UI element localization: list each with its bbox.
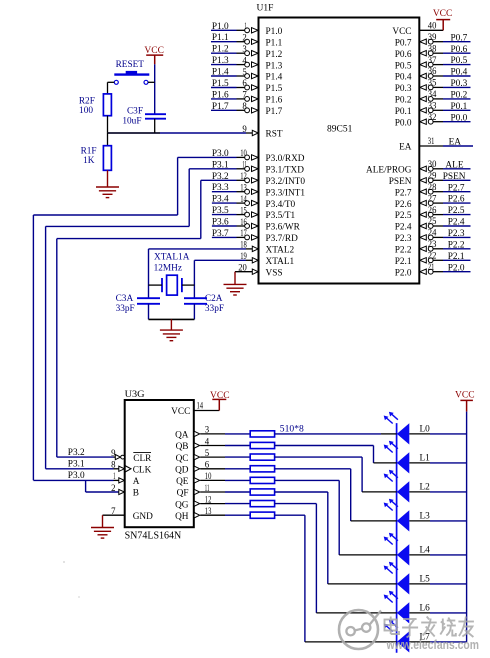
svg-text:P0.3: P0.3 xyxy=(395,84,412,94)
svg-text:27: 27 xyxy=(428,194,437,204)
svg-text:32: 32 xyxy=(428,113,437,123)
svg-text:10: 10 xyxy=(205,472,212,482)
svg-text:L1: L1 xyxy=(420,454,431,464)
svg-text:100: 100 xyxy=(79,106,93,116)
svg-text:31: 31 xyxy=(428,137,435,147)
svg-text:VCC: VCC xyxy=(433,9,453,19)
svg-text:A: A xyxy=(133,477,140,487)
svg-text:P3.5/T1: P3.5/T1 xyxy=(266,211,296,221)
svg-text:P2.0: P2.0 xyxy=(448,263,465,273)
svg-text:PSEN: PSEN xyxy=(443,172,466,182)
svg-text:3: 3 xyxy=(205,426,210,436)
svg-text:12: 12 xyxy=(240,172,247,182)
svg-text:1K: 1K xyxy=(83,156,95,166)
svg-text:RST: RST xyxy=(266,130,283,140)
svg-text:P0.4: P0.4 xyxy=(395,73,412,83)
svg-text:CLR: CLR xyxy=(133,454,152,464)
svg-text:P1.0: P1.0 xyxy=(212,22,229,32)
svg-text:C3F: C3F xyxy=(127,107,143,117)
svg-text:P0.2: P0.2 xyxy=(395,96,412,106)
svg-text:P0.6: P0.6 xyxy=(395,50,412,60)
svg-text:11: 11 xyxy=(242,161,247,171)
svg-text:PSEN: PSEN xyxy=(389,177,412,187)
svg-text:P3.2: P3.2 xyxy=(68,448,85,458)
svg-text:QE: QE xyxy=(176,477,189,487)
svg-text:P1.3: P1.3 xyxy=(266,61,283,71)
svg-text:3: 3 xyxy=(242,45,247,55)
svg-text:38: 38 xyxy=(428,44,437,54)
svg-text:P0.0: P0.0 xyxy=(395,118,412,128)
svg-text:510*8: 510*8 xyxy=(280,424,304,434)
svg-text:33: 33 xyxy=(428,102,437,112)
svg-text:EA: EA xyxy=(399,143,412,153)
svg-text:P1.1: P1.1 xyxy=(266,38,283,48)
svg-text:89C51: 89C51 xyxy=(327,125,353,135)
svg-text:P3.4/T0: P3.4/T0 xyxy=(266,200,296,210)
svg-text:P0.4: P0.4 xyxy=(451,68,468,78)
svg-text:U1F: U1F xyxy=(257,4,274,14)
svg-text:P0.7: P0.7 xyxy=(395,38,412,48)
svg-text:9: 9 xyxy=(111,449,116,459)
svg-text:L0: L0 xyxy=(420,425,431,435)
svg-text:23: 23 xyxy=(428,240,437,250)
svg-text:P3.2/INT0: P3.2/INT0 xyxy=(266,177,306,187)
svg-text:10: 10 xyxy=(240,149,247,159)
svg-text:22: 22 xyxy=(428,252,437,262)
svg-text:16: 16 xyxy=(240,218,247,228)
svg-text:40: 40 xyxy=(428,22,437,32)
svg-text:P3.6/WR: P3.6/WR xyxy=(266,223,301,233)
svg-text:SN74LS164N: SN74LS164N xyxy=(125,531,182,542)
svg-text:P2.2: P2.2 xyxy=(395,246,412,256)
svg-text:8: 8 xyxy=(111,461,116,471)
svg-text:24: 24 xyxy=(428,229,437,239)
svg-text:P1.7: P1.7 xyxy=(266,107,283,117)
svg-text:EA: EA xyxy=(449,138,462,148)
svg-text:13: 13 xyxy=(240,184,247,194)
svg-text:P3.1/TXD: P3.1/TXD xyxy=(266,166,305,176)
svg-text:RESET: RESET xyxy=(116,60,145,70)
svg-text:P0.6: P0.6 xyxy=(451,45,468,55)
svg-text:L2: L2 xyxy=(420,483,431,493)
svg-text:13: 13 xyxy=(205,507,212,517)
svg-text:VCC: VCC xyxy=(392,27,411,37)
svg-text:37: 37 xyxy=(428,56,437,66)
svg-text:XTAL2: XTAL2 xyxy=(266,246,295,256)
svg-text:P0.3: P0.3 xyxy=(451,79,468,89)
svg-text:P2.3: P2.3 xyxy=(395,234,412,244)
svg-text:C2A: C2A xyxy=(205,294,223,304)
svg-text:P1.1: P1.1 xyxy=(212,33,229,43)
svg-text:P2.0: P2.0 xyxy=(395,268,412,278)
svg-text:5: 5 xyxy=(242,68,247,78)
svg-text:11: 11 xyxy=(205,484,210,494)
svg-text:10uF: 10uF xyxy=(122,117,141,127)
svg-text:P3.1: P3.1 xyxy=(68,460,85,470)
svg-text:XTAL1A: XTAL1A xyxy=(154,253,190,263)
svg-text:VCC: VCC xyxy=(455,390,475,400)
svg-text:P1.2: P1.2 xyxy=(266,50,283,60)
svg-text:P1.6: P1.6 xyxy=(212,90,229,100)
svg-text:12: 12 xyxy=(205,495,212,505)
svg-text:5: 5 xyxy=(205,449,210,459)
svg-text:P2.7: P2.7 xyxy=(395,188,412,198)
svg-text:21: 21 xyxy=(428,263,435,273)
svg-text:P3.7/RD: P3.7/RD xyxy=(266,234,299,244)
svg-text:VCC: VCC xyxy=(144,46,164,56)
svg-text:P1.0: P1.0 xyxy=(266,27,283,37)
svg-text:6: 6 xyxy=(242,79,247,89)
svg-text:P2.6: P2.6 xyxy=(448,195,465,205)
svg-text:6: 6 xyxy=(205,461,210,471)
svg-text:P2.4: P2.4 xyxy=(395,223,412,233)
svg-text:P1.2: P1.2 xyxy=(212,45,229,55)
svg-text:14: 14 xyxy=(240,195,247,205)
svg-text:20: 20 xyxy=(238,264,247,274)
svg-text:P0.5: P0.5 xyxy=(451,56,468,66)
svg-text:30: 30 xyxy=(428,160,437,170)
svg-text:P2.1: P2.1 xyxy=(448,252,465,262)
svg-text:28: 28 xyxy=(428,183,437,193)
svg-text:L4: L4 xyxy=(420,546,431,556)
svg-text:R2F: R2F xyxy=(79,96,95,106)
svg-text:L3: L3 xyxy=(420,512,431,522)
svg-text:26: 26 xyxy=(428,206,437,216)
svg-text:U3G: U3G xyxy=(125,390,145,400)
svg-text:ALE/PROG: ALE/PROG xyxy=(366,166,412,176)
svg-text:VCC: VCC xyxy=(171,407,190,417)
svg-text:7: 7 xyxy=(111,507,116,517)
svg-text:P2.4: P2.4 xyxy=(448,218,465,228)
svg-text:QF: QF xyxy=(177,489,189,499)
svg-text:QH: QH xyxy=(175,512,189,522)
svg-text:33pF: 33pF xyxy=(205,304,224,314)
svg-text:P0.7: P0.7 xyxy=(451,33,468,43)
svg-text:12MHz: 12MHz xyxy=(154,264,182,274)
svg-text:7: 7 xyxy=(242,91,247,101)
svg-text:1: 1 xyxy=(244,22,247,32)
svg-text:9: 9 xyxy=(242,125,247,135)
svg-text:B: B xyxy=(133,489,139,499)
svg-text:39: 39 xyxy=(428,33,437,43)
svg-text:VCC: VCC xyxy=(210,391,230,401)
svg-text:P1.6: P1.6 xyxy=(266,96,283,106)
svg-text:QB: QB xyxy=(176,442,189,452)
svg-text:2: 2 xyxy=(242,34,247,44)
svg-text:www.elecfans.com: www.elecfans.com xyxy=(386,637,479,652)
svg-text:17: 17 xyxy=(240,229,247,239)
svg-text:P0.2: P0.2 xyxy=(451,91,468,101)
svg-text:P2.5: P2.5 xyxy=(395,211,412,221)
svg-text:8: 8 xyxy=(242,102,247,112)
svg-text:2: 2 xyxy=(111,484,116,494)
svg-text:ALE: ALE xyxy=(445,160,463,170)
svg-text:P2.5: P2.5 xyxy=(448,206,465,216)
svg-text:P2.2: P2.2 xyxy=(448,240,465,250)
svg-text:QC: QC xyxy=(176,454,189,464)
svg-text:P2.1: P2.1 xyxy=(395,257,412,267)
svg-text:QD: QD xyxy=(175,466,189,476)
svg-text:C3A: C3A xyxy=(116,294,134,304)
svg-text:P0.1: P0.1 xyxy=(395,107,412,117)
svg-text:P0.0: P0.0 xyxy=(451,113,468,123)
svg-text:L5: L5 xyxy=(420,575,431,585)
svg-text:P0.1: P0.1 xyxy=(451,102,468,112)
svg-text:GND: GND xyxy=(133,512,153,522)
svg-text:4: 4 xyxy=(205,437,210,447)
svg-text:P1.7: P1.7 xyxy=(212,102,229,112)
svg-text:36: 36 xyxy=(428,67,437,77)
svg-text:XTAL1: XTAL1 xyxy=(266,257,295,267)
svg-text:P1.4: P1.4 xyxy=(266,73,283,83)
svg-text:25: 25 xyxy=(428,217,437,227)
svg-text:4: 4 xyxy=(242,56,247,66)
svg-text:P2.3: P2.3 xyxy=(448,229,465,239)
svg-text:P3.0/RXD: P3.0/RXD xyxy=(266,154,305,164)
svg-text:P1.5: P1.5 xyxy=(212,79,229,89)
svg-text:33pF: 33pF xyxy=(116,304,135,314)
svg-text:1: 1 xyxy=(113,472,116,482)
svg-text:P1.3: P1.3 xyxy=(212,56,229,66)
svg-text:P3.3/INT1: P3.3/INT1 xyxy=(266,188,306,198)
svg-text:P3.0: P3.0 xyxy=(68,471,85,481)
svg-text:P1.4: P1.4 xyxy=(212,68,229,78)
svg-text:14: 14 xyxy=(197,402,204,412)
svg-text:P2.6: P2.6 xyxy=(395,200,412,210)
svg-text:35: 35 xyxy=(428,79,437,89)
svg-text:QA: QA xyxy=(175,431,189,441)
svg-text:P1.5: P1.5 xyxy=(266,84,283,94)
svg-text:L6: L6 xyxy=(420,604,431,614)
svg-text:QG: QG xyxy=(175,500,189,510)
svg-text:VSS: VSS xyxy=(266,268,283,278)
svg-text:34: 34 xyxy=(428,90,437,100)
svg-text:29: 29 xyxy=(428,172,437,182)
svg-text:P0.5: P0.5 xyxy=(395,61,412,71)
svg-text:CLK: CLK xyxy=(133,466,152,476)
svg-text:P2.7: P2.7 xyxy=(448,183,465,193)
svg-text:15: 15 xyxy=(240,206,247,216)
